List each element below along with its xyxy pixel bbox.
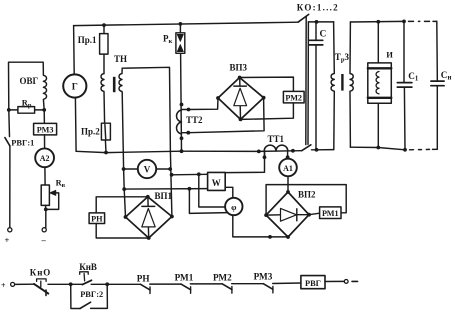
TT1 secondary terminals xyxy=(265,151,288,157)
wire: RN bottom to VP1 bottom vertex xyxy=(96,224,149,239)
fuse Pr.1 xyxy=(103,25,105,73)
wattmeter W xyxy=(208,172,226,190)
fuse Pr.2 xyxy=(105,123,106,152)
svg-text:А2: А2 xyxy=(40,154,50,163)
svg-text:А1: А1 xyxy=(283,164,293,173)
node: right line / wattmeter branch xyxy=(170,173,174,177)
generator G xyxy=(63,74,86,97)
svg-text:РМ1: РМ1 xyxy=(175,272,194,282)
svg-text:КнО: КнО xyxy=(30,267,51,277)
wire to RN contact xyxy=(107,283,140,285)
svg-text:Пр.2: Пр.2 xyxy=(81,127,100,137)
wire: bottom rail (generator phase 2) xyxy=(76,151,302,153)
relay PM3 (in field circuit) xyxy=(43,110,45,124)
wire: W right-bottom to phase meter top xyxy=(225,187,233,198)
svg-text:РВГ:2: РВГ:2 xyxy=(80,290,103,299)
svg-text:РМ3: РМ3 xyxy=(254,272,273,282)
svg-text:РВГ: РВГ xyxy=(305,279,321,288)
svg-text:РВГ:1: РВГ:1 xyxy=(11,139,34,148)
voltmeter V xyxy=(124,168,138,170)
wire: TN secondary bottom lead down to VP1 left vertex xyxy=(122,93,125,217)
rectifier bridge VP2 xyxy=(266,192,309,237)
wire: TN secondary top lead, right loop down to VP1 right vertex xyxy=(122,67,172,216)
wire to KnO xyxy=(15,283,34,285)
VP2 diode xyxy=(266,214,309,216)
contact PM3 xyxy=(263,284,273,290)
svg-text:ТН: ТН xyxy=(114,54,127,64)
wire: TT2 top to VP3 left vertex xyxy=(189,98,219,110)
wire: secondary bottom dash-dot continuation xyxy=(410,148,438,151)
capacitor C xyxy=(315,22,317,150)
rectifier bridge VP3 xyxy=(218,78,264,120)
wire: upper measuring bus to wattmeter W xyxy=(172,173,208,176)
ammeter A1 xyxy=(287,157,289,158)
Rv wiper xyxy=(46,193,59,210)
transformer Tr3 secondary winding xyxy=(350,22,353,147)
phase meter phi xyxy=(225,198,242,215)
rectifier bridge VP1 xyxy=(126,197,172,238)
transformer TN primary winding (left) xyxy=(101,74,105,124)
node: V left xyxy=(122,167,126,171)
relay PM1 with DC loop of VP2 xyxy=(266,185,346,216)
wire: branch B down to phase meter lower-left xyxy=(189,189,227,214)
node: V right xyxy=(168,167,172,171)
wire: TT2 bottom to VP3 right vertex xyxy=(188,98,264,133)
inductor (load) I xyxy=(377,22,379,148)
resistor Rp xyxy=(9,109,44,111)
svg-text:Тр3: Тр3 xyxy=(335,52,350,64)
contactor KO contact 1 blade xyxy=(298,14,309,22)
button KnV xyxy=(71,283,83,285)
node: top bus / arrester Rk xyxy=(179,22,183,26)
svg-text:И: И xyxy=(386,50,393,60)
self-hold contact RVG:2 xyxy=(71,284,80,308)
wire: secondary bottom bus xyxy=(350,147,405,150)
svg-text:КО:1...2: КО:1...2 xyxy=(297,3,339,13)
current transformer TT1 on bottom rail xyxy=(264,145,288,151)
transformer TN secondary winding (right) xyxy=(119,68,122,93)
svg-text:ОВГ: ОВГ xyxy=(20,76,39,86)
VP3 diode xyxy=(239,78,242,120)
svg-text:Сн: Сн xyxy=(441,70,452,82)
terminal + xyxy=(8,228,12,232)
wire: branch A down to phase meter left xyxy=(199,174,225,207)
relay RVG coil xyxy=(301,276,325,289)
svg-text:С1: С1 xyxy=(408,71,419,83)
transformer Tr3 core xyxy=(341,74,343,91)
svg-text:V: V xyxy=(144,164,151,174)
svg-text:ТТ2: ТТ2 xyxy=(186,115,203,125)
svg-text:ВП3: ВП3 xyxy=(230,63,248,73)
svg-text:–: – xyxy=(41,235,47,245)
wire: secondary top bus xyxy=(350,20,404,23)
wire: lower measuring bus to wattmeter W xyxy=(124,188,207,191)
svg-text:Г: Г xyxy=(72,83,78,93)
wire: phi bottom to VP2 bottom vertex xyxy=(233,215,288,237)
svg-text:РМ1: РМ1 xyxy=(322,209,339,218)
node: top bus / fuse Pr.1 xyxy=(102,23,106,27)
wire KnO to KnV xyxy=(48,283,71,285)
relay RN xyxy=(89,213,105,224)
wire: top bus from generator to KO contact 1 xyxy=(74,22,298,25)
svg-text:+: + xyxy=(5,235,10,245)
rheostat Rv xyxy=(44,167,46,185)
field winding OVG loop xyxy=(9,62,47,110)
wire: secondary top dash-dot continuation xyxy=(409,20,437,22)
svg-text:РН: РН xyxy=(137,273,150,283)
svg-text:ТТ1: ТТ1 xyxy=(268,134,285,144)
node: rail / fuse Pr.2 xyxy=(104,151,108,155)
transformer Tr3 primary winding xyxy=(331,22,334,150)
wire RVG to terminal xyxy=(325,280,344,282)
wire: RN top to VP1 top vertex xyxy=(96,197,148,213)
svg-text:ВП2: ВП2 xyxy=(298,190,316,200)
button KnO xyxy=(34,284,48,294)
capacitor Cn xyxy=(436,76,438,87)
TT2 secondary terminals xyxy=(182,110,189,133)
arrester Rk (wire down to TT2 and bottom rail) xyxy=(180,24,181,151)
svg-text:Пр.1: Пр.1 xyxy=(78,35,97,45)
terminal - xyxy=(42,228,46,232)
wire: left branch down to RVG:1 xyxy=(8,110,11,137)
transformer TN core xyxy=(113,77,116,92)
contact PM2 xyxy=(222,284,232,290)
svg-text:РМ2: РМ2 xyxy=(213,272,232,282)
node: left line / lower measuring bus xyxy=(122,187,126,191)
capacitor C1 xyxy=(404,21,405,149)
contact PM1 xyxy=(181,284,191,290)
svg-text:+: + xyxy=(1,281,6,290)
ammeter A2 xyxy=(44,135,46,148)
VP1 diode xyxy=(147,197,150,238)
wire: KO to C node (top) xyxy=(308,21,333,23)
node: rail / TT2 column xyxy=(180,149,184,153)
wire: W right to TT1 secondary left xyxy=(225,151,264,172)
svg-text:Rр: Rр xyxy=(22,99,32,110)
svg-text:φ: φ xyxy=(231,202,237,212)
contact RVG:1 xyxy=(5,138,10,146)
contact RN xyxy=(141,284,151,290)
label minus xyxy=(352,280,358,282)
svg-text:ВП1: ВП1 xyxy=(155,191,173,201)
wire: A1 to VP2 top vertex xyxy=(287,176,289,192)
wire: generator top lead xyxy=(73,26,76,75)
svg-text:W: W xyxy=(212,178,221,188)
wire: KO to C node (bottom) xyxy=(312,149,334,151)
svg-text:КнВ: КнВ xyxy=(79,262,97,272)
svg-text:РН: РН xyxy=(91,215,103,224)
relay PM2 with DC loop of VP3 xyxy=(240,77,294,91)
svg-text:РМ3: РМ3 xyxy=(37,126,54,135)
contactor KO contact 2 blade xyxy=(302,145,311,151)
wire: generator bottom lead xyxy=(74,98,77,152)
current transformer TT2 xyxy=(177,110,182,134)
svg-text:Рк: Рк xyxy=(163,34,173,46)
contactor KO pole lines xyxy=(306,17,309,145)
svg-text:РМ2: РМ2 xyxy=(285,94,302,103)
svg-text:С: С xyxy=(320,30,327,40)
svg-text:Rв: Rв xyxy=(56,179,66,190)
